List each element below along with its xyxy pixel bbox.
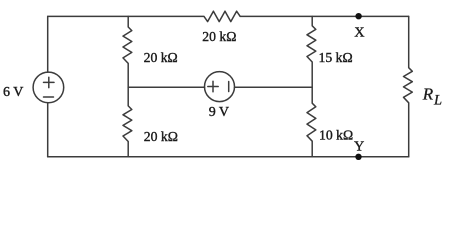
svg-text:9 V: 9 V bbox=[209, 105, 229, 120]
svg-text:Y: Y bbox=[354, 140, 364, 155]
svg-text:20 kΩ: 20 kΩ bbox=[144, 50, 178, 65]
svg-text:15 kΩ: 15 kΩ bbox=[319, 50, 353, 65]
svg-text:20 kΩ: 20 kΩ bbox=[202, 29, 236, 44]
svg-text:10 kΩ: 10 kΩ bbox=[319, 128, 353, 143]
svg-text:X: X bbox=[354, 26, 364, 41]
svg-text:L: L bbox=[433, 93, 442, 109]
svg-text:20 kΩ: 20 kΩ bbox=[144, 129, 178, 144]
svg-text:R: R bbox=[422, 85, 434, 104]
svg-text:6 V: 6 V bbox=[3, 85, 23, 100]
